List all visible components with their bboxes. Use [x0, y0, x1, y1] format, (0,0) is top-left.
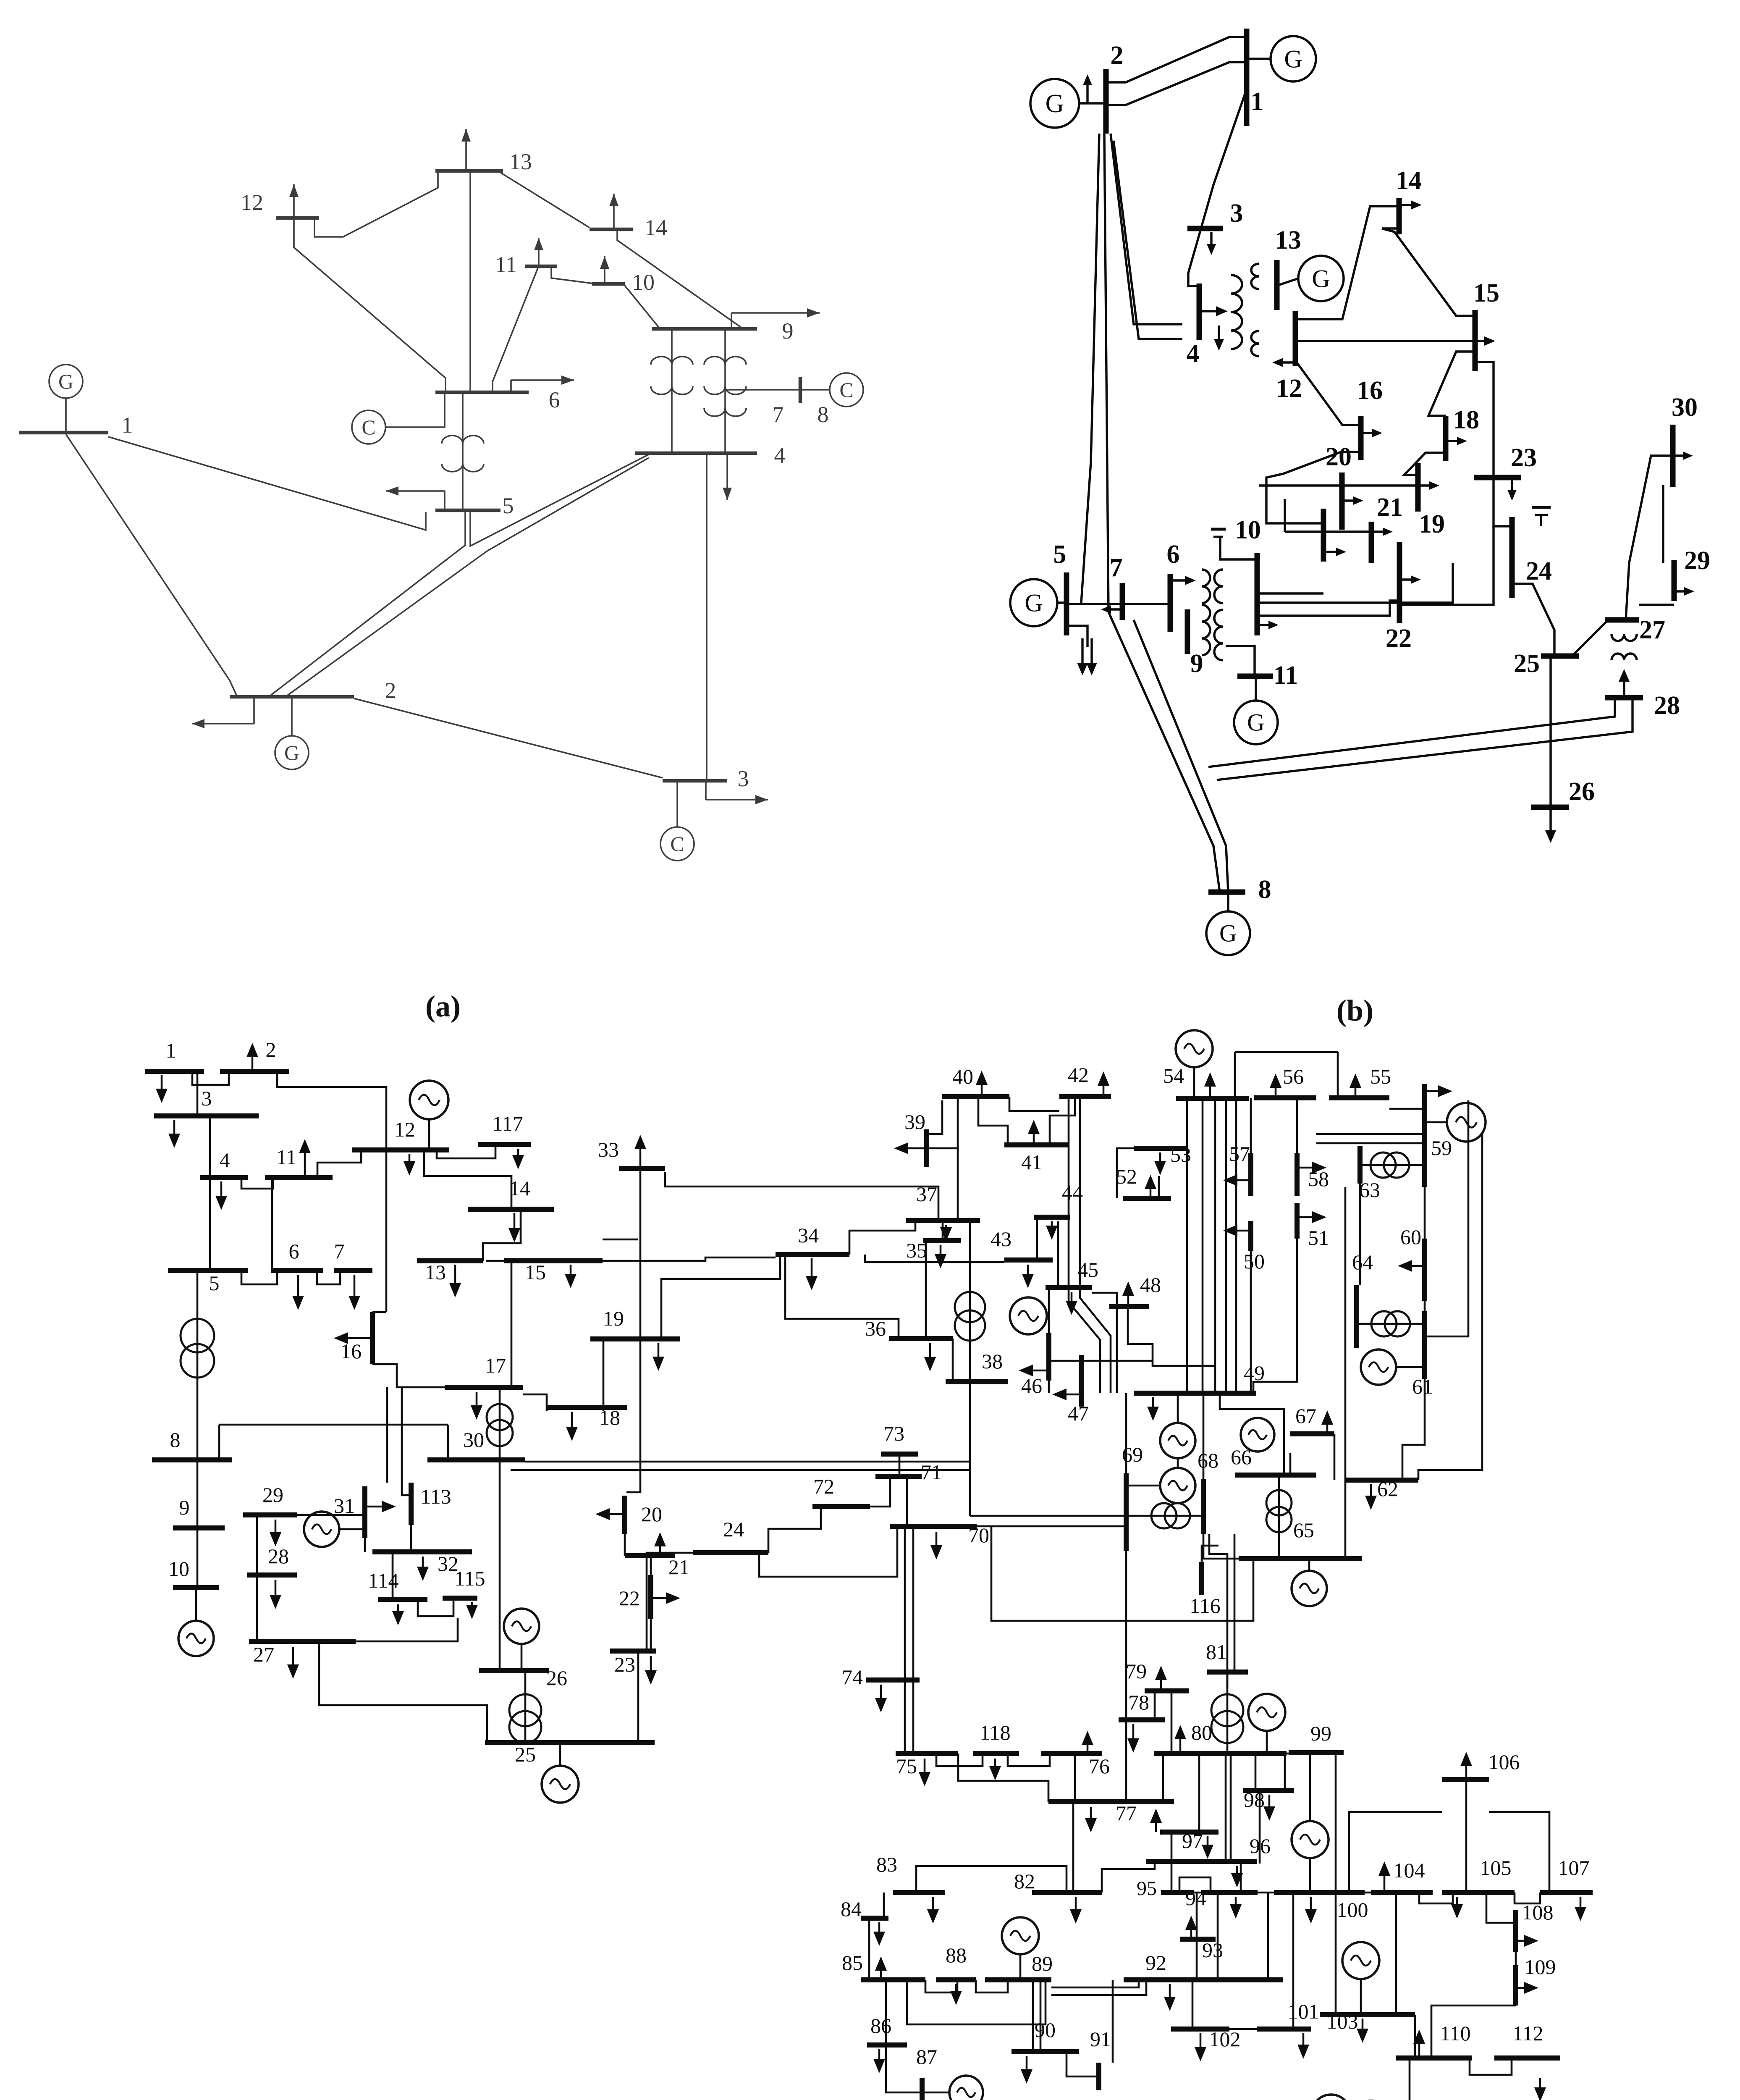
svg-text:28: 28: [1654, 691, 1680, 720]
svg-text:11: 11: [276, 1145, 296, 1169]
svg-text:53: 53: [1170, 1143, 1191, 1166]
svg-text:117: 117: [492, 1112, 523, 1135]
svg-text:54: 54: [1163, 1064, 1184, 1087]
svg-text:26: 26: [1569, 777, 1595, 806]
svg-text:2: 2: [266, 1038, 276, 1061]
svg-text:9: 9: [1190, 649, 1203, 678]
svg-text:59: 59: [1431, 1136, 1452, 1160]
svg-text:7: 7: [1110, 554, 1123, 582]
svg-text:(b): (b): [1336, 994, 1373, 1027]
svg-text:89: 89: [1032, 1952, 1053, 1975]
svg-text:27: 27: [253, 1643, 274, 1666]
svg-text:14: 14: [645, 215, 667, 240]
svg-text:15: 15: [1473, 279, 1499, 307]
svg-text:21: 21: [1377, 493, 1403, 522]
svg-text:41: 41: [1021, 1150, 1042, 1174]
svg-text:14: 14: [1396, 166, 1422, 195]
svg-text:1: 1: [122, 412, 133, 438]
svg-text:98: 98: [1244, 1788, 1265, 1811]
svg-text:4: 4: [774, 443, 786, 468]
svg-text:114: 114: [368, 1569, 398, 1592]
svg-text:56: 56: [1283, 1065, 1304, 1088]
svg-text:10: 10: [168, 1557, 189, 1580]
svg-text:71: 71: [921, 1460, 942, 1484]
svg-text:85: 85: [842, 1951, 863, 1974]
svg-text:31: 31: [334, 1494, 355, 1517]
svg-text:17: 17: [485, 1354, 506, 1377]
svg-text:25: 25: [515, 1743, 536, 1766]
svg-text:35: 35: [906, 1239, 927, 1262]
svg-text:64: 64: [1352, 1250, 1373, 1274]
svg-text:22: 22: [619, 1586, 640, 1610]
svg-text:25: 25: [1514, 649, 1540, 678]
svg-text:115: 115: [454, 1567, 485, 1590]
svg-text:18: 18: [599, 1406, 620, 1429]
svg-text:18: 18: [1453, 406, 1479, 434]
svg-text:103: 103: [1327, 2010, 1358, 2033]
svg-text:C: C: [670, 832, 684, 856]
svg-text:3: 3: [738, 766, 749, 791]
svg-text:65: 65: [1293, 1518, 1314, 1542]
svg-text:29: 29: [262, 1483, 283, 1507]
svg-text:C: C: [839, 378, 853, 402]
svg-text:73: 73: [883, 1422, 904, 1445]
svg-text:100: 100: [1337, 1898, 1368, 1921]
svg-text:82: 82: [1014, 1869, 1035, 1893]
svg-text:84: 84: [841, 1897, 862, 1921]
svg-text:69: 69: [1122, 1443, 1143, 1466]
svg-text:33: 33: [598, 1138, 619, 1161]
svg-text:77: 77: [1116, 1801, 1137, 1825]
svg-text:16: 16: [1357, 376, 1383, 405]
svg-text:34: 34: [798, 1223, 819, 1247]
svg-text:(a): (a): [425, 990, 461, 1023]
svg-text:60: 60: [1400, 1225, 1421, 1249]
svg-text:24: 24: [1526, 557, 1552, 585]
svg-text:11: 11: [495, 252, 517, 277]
svg-text:15: 15: [525, 1260, 546, 1284]
svg-text:10: 10: [632, 270, 655, 295]
svg-text:5: 5: [503, 493, 514, 518]
svg-text:5: 5: [1053, 540, 1067, 569]
svg-text:97: 97: [1182, 1829, 1203, 1853]
svg-text:42: 42: [1068, 1063, 1089, 1087]
svg-text:3: 3: [1230, 199, 1243, 228]
svg-text:110: 110: [1440, 2021, 1470, 2045]
svg-text:105: 105: [1480, 1856, 1512, 1879]
svg-text:91: 91: [1090, 2027, 1111, 2051]
svg-text:87: 87: [916, 2045, 937, 2068]
svg-text:24: 24: [723, 1517, 744, 1541]
svg-text:8: 8: [1258, 875, 1271, 904]
svg-text:G: G: [1284, 45, 1302, 73]
svg-text:72: 72: [813, 1475, 834, 1498]
svg-text:36: 36: [865, 1317, 886, 1340]
svg-text:13: 13: [425, 1260, 446, 1284]
svg-text:10: 10: [1235, 516, 1261, 544]
svg-text:99: 99: [1310, 1722, 1331, 1745]
svg-text:G: G: [1247, 709, 1265, 736]
svg-text:6: 6: [549, 387, 560, 412]
svg-text:7: 7: [773, 402, 784, 427]
svg-text:13: 13: [1275, 226, 1301, 255]
svg-text:28: 28: [268, 1544, 289, 1568]
svg-text:92: 92: [1145, 1951, 1166, 1974]
svg-text:48: 48: [1140, 1273, 1161, 1297]
svg-text:93: 93: [1202, 1938, 1223, 1962]
svg-text:G: G: [1046, 89, 1064, 118]
svg-text:62: 62: [1377, 1477, 1398, 1501]
svg-text:19: 19: [1419, 510, 1445, 538]
svg-text:12: 12: [394, 1118, 415, 1141]
svg-text:78: 78: [1128, 1690, 1149, 1714]
svg-text:74: 74: [842, 1665, 863, 1689]
svg-text:8: 8: [818, 402, 829, 427]
svg-text:6: 6: [289, 1239, 299, 1263]
svg-text:1: 1: [1251, 87, 1264, 116]
svg-text:14: 14: [509, 1176, 530, 1200]
svg-text:88: 88: [946, 1943, 967, 1967]
svg-text:61: 61: [1412, 1375, 1433, 1398]
svg-text:4: 4: [1187, 339, 1200, 368]
svg-text:86: 86: [870, 2014, 891, 2037]
svg-text:40: 40: [952, 1065, 973, 1088]
svg-text:55: 55: [1370, 1065, 1391, 1088]
svg-text:19: 19: [603, 1307, 624, 1330]
svg-text:102: 102: [1209, 2027, 1241, 2051]
svg-text:6: 6: [1167, 540, 1180, 569]
svg-text:C: C: [362, 415, 375, 439]
svg-text:106: 106: [1488, 1750, 1520, 1774]
svg-text:2: 2: [1111, 41, 1124, 70]
svg-text:20: 20: [641, 1502, 662, 1526]
svg-text:21: 21: [668, 1555, 689, 1579]
svg-text:57: 57: [1229, 1142, 1250, 1165]
svg-text:81: 81: [1206, 1640, 1227, 1664]
svg-text:38: 38: [982, 1349, 1003, 1373]
svg-text:12: 12: [241, 190, 263, 215]
svg-text:67: 67: [1295, 1404, 1316, 1428]
svg-text:5: 5: [209, 1271, 220, 1295]
svg-text:118: 118: [980, 1721, 1010, 1744]
svg-text:104: 104: [1394, 1858, 1425, 1882]
svg-text:30: 30: [1672, 393, 1698, 422]
svg-text:9: 9: [179, 1496, 190, 1519]
svg-text:2: 2: [385, 678, 396, 703]
svg-text:83: 83: [876, 1853, 897, 1876]
svg-text:G: G: [1219, 920, 1237, 947]
svg-text:51: 51: [1308, 1226, 1329, 1249]
svg-text:95: 95: [1137, 1877, 1157, 1900]
svg-text:13: 13: [509, 149, 532, 174]
svg-text:109: 109: [1525, 1955, 1556, 1979]
svg-text:76: 76: [1089, 1754, 1110, 1778]
svg-text:50: 50: [1244, 1249, 1265, 1273]
svg-text:47: 47: [1068, 1402, 1089, 1425]
svg-text:26: 26: [546, 1666, 567, 1690]
svg-text:68: 68: [1198, 1449, 1219, 1472]
svg-text:79: 79: [1126, 1659, 1147, 1683]
svg-text:27: 27: [1639, 616, 1665, 644]
svg-text:9: 9: [782, 318, 794, 344]
svg-text:G: G: [1312, 265, 1330, 292]
svg-text:12: 12: [1276, 374, 1302, 403]
svg-text:75: 75: [896, 1754, 917, 1778]
svg-text:63: 63: [1359, 1178, 1380, 1202]
svg-text:G: G: [58, 370, 73, 393]
svg-text:23: 23: [614, 1653, 635, 1676]
svg-text:39: 39: [904, 1110, 925, 1134]
svg-text:4: 4: [220, 1148, 230, 1172]
svg-text:52: 52: [1116, 1165, 1137, 1188]
svg-text:43: 43: [991, 1227, 1012, 1251]
svg-text:112: 112: [1512, 2021, 1543, 2045]
svg-text:80: 80: [1191, 1721, 1212, 1744]
svg-text:7: 7: [334, 1239, 345, 1263]
svg-text:11: 11: [1274, 661, 1298, 690]
svg-text:116: 116: [1190, 1594, 1220, 1617]
svg-text:3: 3: [202, 1087, 212, 1110]
svg-text:113: 113: [420, 1485, 451, 1508]
svg-text:30: 30: [463, 1428, 484, 1452]
svg-text:G: G: [284, 741, 299, 764]
svg-text:16: 16: [341, 1339, 362, 1363]
svg-text:22: 22: [1386, 624, 1412, 653]
svg-text:107: 107: [1558, 1856, 1590, 1879]
svg-text:29: 29: [1684, 546, 1710, 575]
svg-text:23: 23: [1511, 444, 1537, 472]
svg-text:46: 46: [1021, 1374, 1042, 1397]
svg-text:1: 1: [166, 1039, 176, 1062]
svg-text:8: 8: [170, 1428, 181, 1452]
svg-text:G: G: [1025, 589, 1043, 617]
